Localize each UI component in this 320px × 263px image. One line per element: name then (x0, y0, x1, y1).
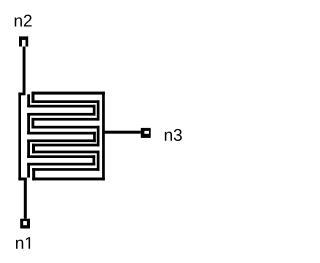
meander resistor body (18, 92, 104, 181)
finger L3 top wall (27, 155, 95, 158)
right bus inner seg R1 (97, 100, 100, 120)
finger R4 top wall (32, 168, 99, 171)
right bus inner seg R3 (97, 151, 100, 171)
finger R2 top wall (32, 118, 100, 121)
finger R2 bottom wall (32, 126, 100, 129)
finger R3 left cap (32, 144, 35, 154)
left bus inner wall seg4 (27, 163, 30, 178)
wire n2 vertical (23, 47, 26, 96)
left bus inner wall seg2 (27, 113, 30, 135)
node label n1 (16, 237, 30, 249)
left bus bottom cap (18, 178, 26, 181)
finger R1 top wall (top edge) (32, 92, 105, 95)
node label n2 (15, 15, 32, 27)
port terminal n2 (19, 36, 28, 46)
finger L2 bottom wall (27, 139, 96, 142)
finger R3 bottom wall (32, 151, 99, 154)
finger R4 left cap (32, 168, 35, 180)
port terminal n1 (20, 219, 30, 229)
left bus inner wall seg1 (27, 94, 30, 107)
port terminal n3 (141, 128, 151, 138)
finger L1 right cap (93, 105, 96, 116)
finger L3 bottom wall (27, 163, 95, 166)
right bus inner seg R2 (97, 126, 100, 147)
finger R3 top wall (32, 144, 99, 147)
finger L3 right cap (93, 155, 96, 165)
left bus inner wall seg3 (27, 140, 30, 159)
finger R1 left cap (32, 92, 35, 103)
right bus outer wall (102, 92, 105, 181)
finger R2 left cap (32, 118, 35, 129)
wire n3 horizontal (105, 131, 141, 134)
finger L2 top wall (27, 132, 96, 135)
node label n3 (165, 129, 182, 141)
wire n1 vertical (24, 178, 27, 219)
finger R1 bottom wall (32, 100, 100, 103)
bottom wall (finger R4 bottom) (32, 178, 105, 181)
left bus outer wall (18, 93, 21, 181)
finger L1 bottom wall (27, 113, 95, 116)
left bus top cap (18, 93, 25, 96)
finger L1 top wall (27, 105, 95, 108)
finger L2 right cap (93, 132, 96, 142)
